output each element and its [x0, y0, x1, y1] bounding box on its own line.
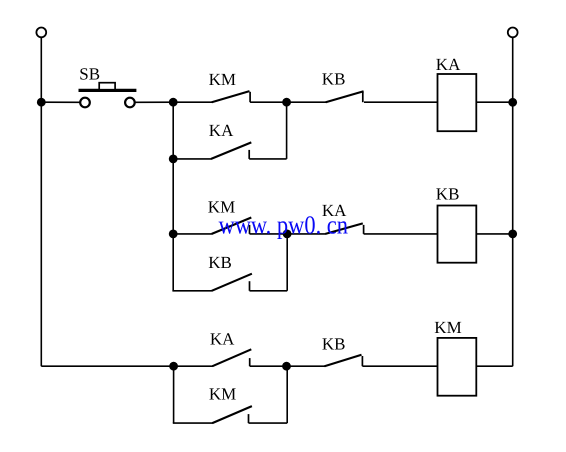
svg-text:KB: KB — [322, 69, 346, 88]
wire coil KA to right rail — [476, 101, 512, 103]
wire branch1 right vertical — [286, 102, 288, 159]
svg-text:KA: KA — [436, 55, 461, 74]
wire to KM contact rung2 — [173, 233, 212, 235]
wire node to KB contact — [287, 101, 327, 103]
wire left rail — [40, 38, 42, 366]
wire coil KM to right rail — [476, 365, 512, 367]
junction node rung3 left — [169, 362, 178, 371]
contact KB rung1 — [326, 91, 364, 102]
wire KM to node — [250, 101, 287, 103]
wire right rail — [512, 38, 514, 366]
contact KM branch3 — [212, 406, 252, 423]
wire node to KA contact rung2 — [287, 233, 326, 235]
wire SB to node — [135, 101, 173, 103]
junction node rung1 mid — [282, 98, 291, 107]
wire branch1 left vertical — [172, 102, 174, 159]
wire to KM contact — [173, 101, 212, 103]
svg-text:SB: SB — [79, 64, 100, 83]
wire rung1 left — [41, 101, 79, 103]
terminal (left supply) — [36, 28, 46, 38]
wire KM to node rung2 — [250, 233, 288, 235]
wire coil KB to right rail — [476, 233, 512, 235]
wire branch1 to KA contact — [173, 158, 211, 160]
wire to KA contact rung3 — [174, 365, 213, 367]
junction node rung1 left — [169, 98, 178, 107]
wire KA to coil KB — [364, 233, 438, 235]
coil KB — [438, 206, 477, 263]
contact KA rung3 — [212, 349, 251, 366]
contact KA branch1 — [211, 142, 251, 159]
wire branch3 left vertical — [173, 366, 175, 423]
coil KA — [438, 74, 477, 131]
junction node left rail / rung1 — [37, 98, 46, 107]
wire branch2 to KB contact — [172, 290, 212, 292]
contact KA rung2 — [325, 223, 363, 234]
wire node to KB contact rung3 — [287, 365, 326, 367]
svg-text:KM: KM — [209, 385, 236, 404]
wire KB to coil KA — [364, 101, 438, 103]
svg-text:KB: KB — [436, 185, 460, 204]
svg-text:KM: KM — [434, 318, 461, 337]
contact KM rung1 — [212, 91, 250, 102]
contact KM rung2 — [212, 218, 252, 234]
wire vertical node1 to rung2 — [172, 159, 174, 234]
pushbutton SB — [79, 83, 137, 108]
wire KA to node rung3 — [250, 365, 287, 367]
wire branch2 left vertical — [172, 234, 174, 291]
junction node rung2 right — [508, 230, 517, 239]
junction node rung3 mid — [282, 362, 291, 371]
contact KB rung3 — [325, 355, 363, 366]
svg-text:www. pw0. cn: www. pw0. cn — [219, 210, 349, 239]
junction node rung2 mid — [283, 230, 292, 239]
coil KM — [438, 338, 477, 396]
wire KB branch2 right — [250, 290, 288, 292]
junction node branch1 — [169, 155, 178, 164]
svg-text:KA: KA — [210, 329, 235, 348]
junction node rung1 right — [508, 98, 517, 107]
wire KB to coil KM — [362, 365, 437, 367]
wire branch2 right vertical — [286, 234, 288, 291]
terminal (right supply) — [508, 28, 518, 38]
wire KM branch3 right — [249, 422, 288, 424]
contact KB branch2 — [212, 274, 252, 291]
svg-text:KB: KB — [322, 334, 346, 353]
svg-text:KB: KB — [208, 253, 232, 272]
wire rung3 left — [41, 365, 173, 367]
wire KA branch1 right — [249, 158, 286, 160]
svg-text:KM: KM — [209, 70, 236, 89]
junction node rung2 left — [169, 230, 178, 239]
wire branch3 to KM contact — [173, 422, 213, 424]
svg-text:KA: KA — [209, 121, 234, 140]
wire branch3 right vertical — [286, 366, 288, 423]
